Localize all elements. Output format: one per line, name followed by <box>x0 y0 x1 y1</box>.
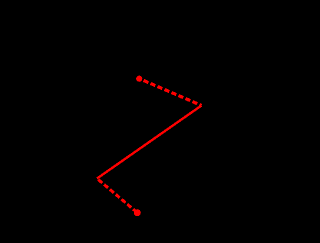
trajectory overlay <box>0 0 251 243</box>
dot A <box>136 76 142 82</box>
solid segment B-C <box>97 106 202 179</box>
dashed segment A-B <box>139 79 202 106</box>
dashed segment C-D <box>97 179 137 213</box>
dot D <box>134 209 141 216</box>
